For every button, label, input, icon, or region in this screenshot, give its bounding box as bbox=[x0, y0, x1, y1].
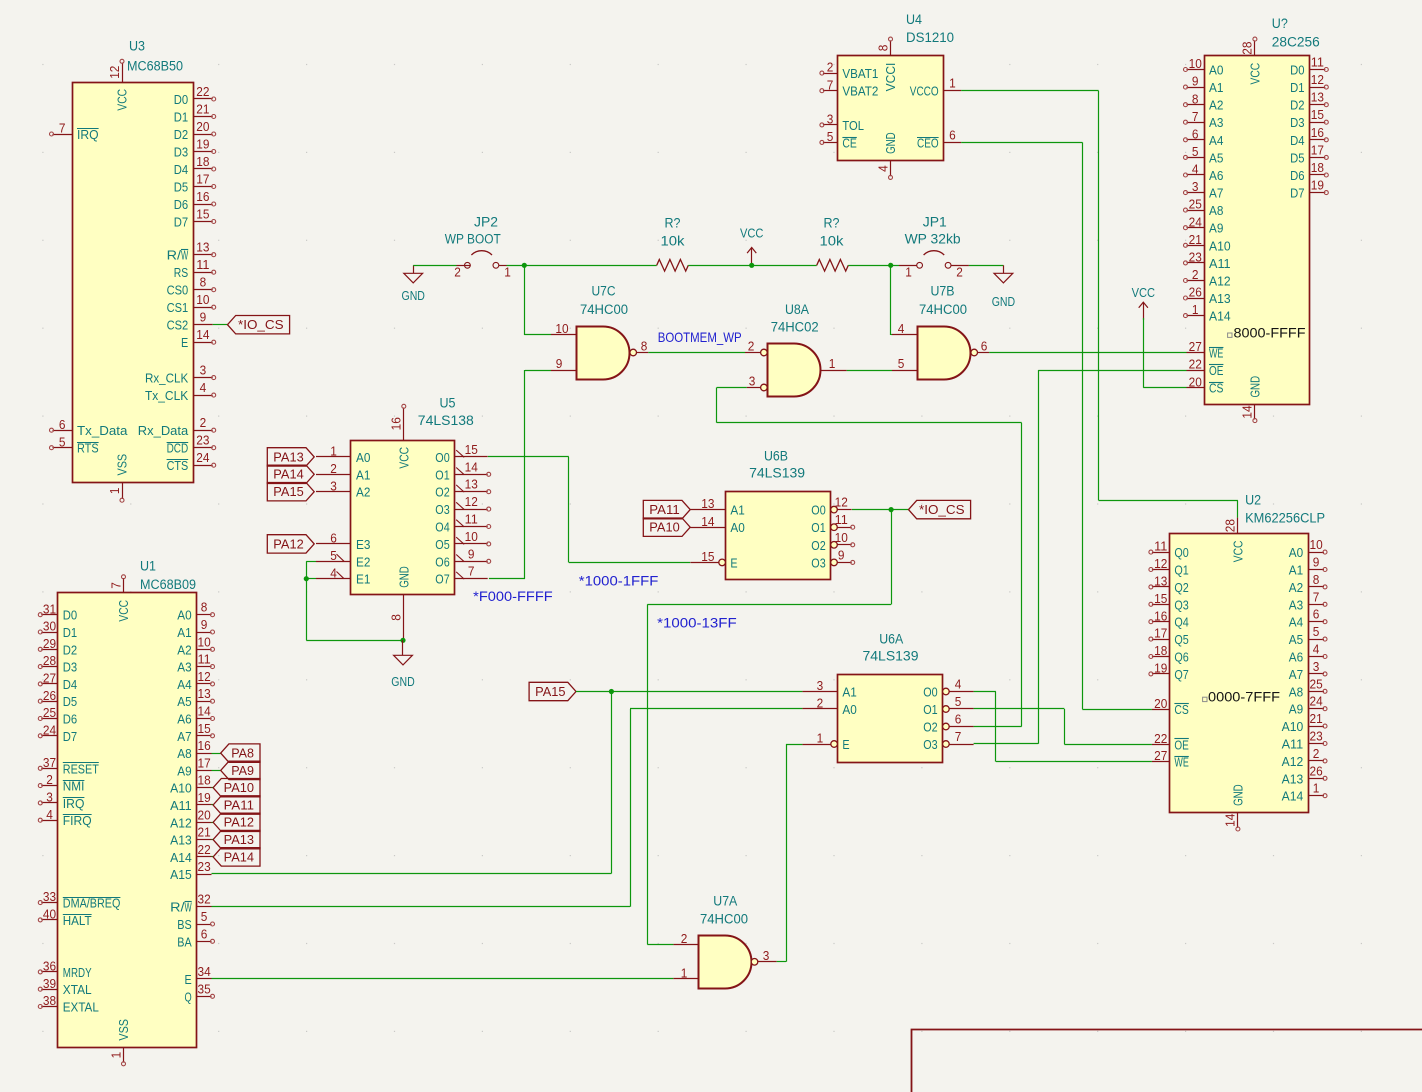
U6B pin 9 (O3) bbox=[831, 559, 838, 566]
svg-text:O0: O0 bbox=[923, 685, 937, 700]
svg-text:Tx_CLK: Tx_CLK bbox=[145, 388, 188, 403]
svg-text:1: 1 bbox=[829, 356, 836, 371]
U5 pin 5 (E2) bbox=[316, 561, 351, 563]
U7 pin 14 (GND) bbox=[1254, 405, 1256, 420]
svg-text:Q5: Q5 bbox=[1174, 632, 1188, 647]
U6A pin 1 (E) bbox=[831, 741, 838, 748]
svg-text:31: 31 bbox=[43, 601, 56, 616]
U2 pin 19 (Q7) bbox=[1152, 673, 1170, 675]
U6A pin 7 (O3) bbox=[943, 741, 950, 748]
U7 pin 8 (A2) bbox=[1187, 104, 1205, 106]
svg-text:18: 18 bbox=[198, 773, 211, 788]
U7 pin 24 (A9) bbox=[1187, 227, 1205, 229]
svg-text:27: 27 bbox=[43, 671, 56, 686]
U1 pin 4 (FIRQ) bbox=[41, 820, 58, 822]
svg-text:XTAL: XTAL bbox=[63, 982, 92, 997]
U2 pin 8 (A2) bbox=[1308, 586, 1324, 588]
svg-text:3: 3 bbox=[763, 948, 770, 963]
jumper JP1 WP 32kb bbox=[899, 215, 969, 280]
svg-text:E: E bbox=[842, 737, 849, 752]
svg-text:D7: D7 bbox=[174, 215, 188, 230]
svg-text:O1: O1 bbox=[923, 702, 937, 717]
U2 pin 14 (GND) bbox=[1237, 813, 1239, 828]
U2 pin 4 (A6) bbox=[1308, 656, 1324, 658]
U5 pin 14 (O1) bbox=[455, 474, 488, 476]
svg-text:28: 28 bbox=[43, 653, 56, 668]
svg-text:A11: A11 bbox=[1282, 737, 1304, 752]
svg-text:12: 12 bbox=[1311, 72, 1324, 87]
svg-text:13: 13 bbox=[1154, 574, 1167, 589]
svg-text:E1: E1 bbox=[356, 572, 370, 587]
svg-text:U7B: U7B bbox=[931, 284, 955, 299]
svg-text:4: 4 bbox=[200, 380, 207, 395]
svg-text:U6B: U6B bbox=[764, 449, 788, 464]
power symbol VCC (near U7 CS) bbox=[1132, 285, 1156, 320]
resistor R? 10k (left) bbox=[657, 216, 689, 272]
svg-text:34: 34 bbox=[198, 964, 211, 979]
svg-text:D7: D7 bbox=[1290, 186, 1304, 201]
svg-text:20: 20 bbox=[1154, 696, 1167, 711]
svg-text:12: 12 bbox=[835, 495, 848, 510]
ground symbol GND (right of JP1) bbox=[992, 265, 1015, 309]
svg-text:A12: A12 bbox=[170, 815, 192, 830]
svg-text:15: 15 bbox=[1311, 107, 1324, 122]
svg-text:2: 2 bbox=[454, 265, 461, 280]
svg-text:2: 2 bbox=[1192, 267, 1199, 282]
U7 pin 4 (A6) bbox=[1187, 174, 1205, 176]
svg-text:6: 6 bbox=[1313, 607, 1320, 622]
IC U1 MC68B09 CPU bbox=[38, 559, 214, 1066]
svg-text:D0: D0 bbox=[174, 92, 188, 107]
svg-text:24: 24 bbox=[1310, 694, 1323, 709]
svg-text:15: 15 bbox=[701, 549, 714, 564]
svg-text:15: 15 bbox=[198, 721, 211, 736]
svg-text:29: 29 bbox=[43, 636, 56, 651]
U4 pin 5 (CE) bbox=[823, 142, 838, 144]
U6A pin 2 (A0) bbox=[802, 708, 837, 710]
ground symbol GND (below U5) bbox=[391, 640, 414, 689]
wire JP2 pin1 to node bbox=[507, 265, 657, 267]
U1 pin 37 (RESET) bbox=[41, 768, 58, 770]
svg-text:D4: D4 bbox=[63, 677, 77, 692]
svg-text:12: 12 bbox=[465, 494, 478, 509]
svg-text:PA14: PA14 bbox=[273, 467, 303, 482]
svg-text:D4: D4 bbox=[1290, 133, 1304, 148]
wire U6A O1 to U2 OE bbox=[974, 709, 1152, 745]
U2 pin 26 (A13) bbox=[1308, 778, 1324, 780]
U3 pin 11 (RS) bbox=[193, 272, 213, 274]
svg-text:11: 11 bbox=[465, 512, 478, 527]
U3 pin 7 (IRQ) bbox=[53, 134, 73, 136]
U7 pin 19 (D7) bbox=[1310, 192, 1326, 194]
U5 pin 8 (GND) bbox=[403, 595, 405, 641]
svg-text:36: 36 bbox=[43, 959, 56, 974]
svg-text:PA12: PA12 bbox=[273, 536, 303, 551]
U1 pin 27 (D4) bbox=[41, 683, 58, 685]
svg-text:DS1210: DS1210 bbox=[906, 30, 954, 45]
svg-text:*IO_CS: *IO_CS bbox=[919, 502, 965, 517]
svg-text:PA11: PA11 bbox=[224, 797, 254, 812]
svg-text:MC68B09: MC68B09 bbox=[140, 577, 196, 592]
U6B pin 14 (A0) bbox=[690, 527, 725, 529]
U5 pin 12 (O3) bbox=[455, 509, 488, 511]
svg-text:6: 6 bbox=[59, 417, 66, 432]
U1 pin 26 (D5) bbox=[41, 701, 58, 703]
svg-text:10k: 10k bbox=[661, 234, 685, 249]
svg-text:A13: A13 bbox=[170, 833, 192, 848]
svg-text:A1: A1 bbox=[177, 625, 191, 640]
svg-text:O7: O7 bbox=[435, 572, 449, 587]
svg-text:D7: D7 bbox=[63, 729, 77, 744]
svg-text:1: 1 bbox=[108, 1052, 123, 1059]
svg-text:8: 8 bbox=[201, 600, 208, 615]
svg-text:3: 3 bbox=[817, 678, 824, 693]
svg-text:5: 5 bbox=[827, 129, 834, 144]
svg-text:25: 25 bbox=[1310, 676, 1323, 691]
svg-text:37: 37 bbox=[43, 755, 56, 770]
svg-text:VBAT2: VBAT2 bbox=[842, 84, 878, 99]
svg-text:D1: D1 bbox=[174, 110, 188, 125]
U7 pin 26 (A13) bbox=[1187, 298, 1205, 300]
U1 pin 10 (A2) bbox=[197, 649, 212, 651]
svg-text:6: 6 bbox=[1192, 126, 1199, 141]
U1 pin 39 (XTAL) bbox=[41, 989, 58, 991]
svg-text:Q2: Q2 bbox=[1174, 580, 1188, 595]
U2 pin 13 (Q2) bbox=[1152, 586, 1170, 588]
svg-text:A2: A2 bbox=[356, 485, 370, 500]
U5 pin 3 (A2) bbox=[316, 491, 351, 493]
svg-text:5: 5 bbox=[1313, 624, 1320, 639]
U1 pin 15 (A7) bbox=[197, 735, 212, 737]
svg-text:21: 21 bbox=[1189, 232, 1202, 247]
U7 pin 28 (VCC) bbox=[1254, 40, 1256, 56]
wire U1 R/W to U6A A0 bbox=[212, 709, 803, 907]
svg-text:A8: A8 bbox=[1209, 203, 1223, 218]
U1 pin 13 (A5) bbox=[197, 701, 212, 703]
U2 pin 12 (Q1) bbox=[1152, 569, 1170, 571]
U3 pin 17 (D5) bbox=[193, 186, 213, 188]
wire U6B O0 to *IO_CS and U7A pin2 bbox=[647, 510, 908, 945]
svg-text:A5: A5 bbox=[1289, 632, 1303, 647]
svg-text:17: 17 bbox=[196, 172, 209, 187]
svg-text:CTS: CTS bbox=[167, 458, 189, 473]
svg-text:O2: O2 bbox=[435, 485, 449, 500]
svg-text:VCC: VCC bbox=[1248, 63, 1263, 85]
U3 pin 3 (Rx_CLK) bbox=[193, 377, 213, 379]
svg-text:Rx_Data: Rx_Data bbox=[138, 423, 189, 438]
svg-text:A0: A0 bbox=[177, 608, 191, 623]
svg-text:14: 14 bbox=[465, 459, 478, 474]
U1 pin 23 (A15) bbox=[197, 874, 212, 876]
svg-text:16: 16 bbox=[389, 417, 404, 430]
svg-text:1: 1 bbox=[681, 965, 688, 980]
svg-text:U7A: U7A bbox=[713, 894, 737, 909]
junction at PA15 bbox=[609, 689, 614, 694]
svg-text:U4: U4 bbox=[906, 12, 923, 27]
svg-text:13: 13 bbox=[1311, 90, 1324, 105]
svg-text:PA15: PA15 bbox=[535, 684, 565, 699]
note BOOTMEM_WP bbox=[658, 330, 742, 345]
svg-text:2: 2 bbox=[46, 772, 53, 787]
svg-text:26: 26 bbox=[1189, 285, 1202, 300]
svg-text:25: 25 bbox=[1189, 197, 1202, 212]
svg-text:7: 7 bbox=[59, 121, 66, 136]
svg-text:9: 9 bbox=[1192, 74, 1199, 89]
svg-text:4: 4 bbox=[1192, 162, 1199, 177]
svg-text:A1: A1 bbox=[356, 467, 370, 482]
svg-text:14: 14 bbox=[1240, 405, 1255, 418]
U1 pin 1 (VSS) bbox=[123, 1048, 125, 1063]
svg-text:R/: R/ bbox=[167, 248, 182, 263]
svg-text:VCC: VCC bbox=[1231, 540, 1246, 562]
U5 pin 4 (E1) bbox=[316, 578, 351, 580]
global label PA10 (at U1 A10) bbox=[212, 779, 261, 797]
svg-text:GND: GND bbox=[992, 294, 1015, 309]
svg-text:D1: D1 bbox=[1290, 80, 1304, 95]
svg-text:10: 10 bbox=[465, 529, 478, 544]
NOR gate U8A 74HC02 (DeMorgan AND w/ inverted inputs) bbox=[745, 302, 847, 397]
svg-text:28C256: 28C256 bbox=[1272, 34, 1320, 49]
svg-text:4: 4 bbox=[1313, 642, 1320, 657]
svg-text:VCC: VCC bbox=[115, 89, 130, 111]
svg-text:12: 12 bbox=[198, 669, 211, 684]
U2 pin 5 (A5) bbox=[1308, 639, 1324, 641]
U3 pin 14 (E) bbox=[193, 342, 213, 344]
U3 pin 4 (Tx_CLK) bbox=[193, 395, 213, 397]
svg-text:*1000-1FFF: *1000-1FFF bbox=[579, 574, 659, 589]
U7 pin 10 (A0) bbox=[1187, 69, 1205, 71]
U3 pin 24 (CTS) bbox=[193, 465, 213, 467]
svg-text:E: E bbox=[181, 335, 188, 350]
svg-text:14: 14 bbox=[198, 704, 211, 719]
svg-text:FIRQ: FIRQ bbox=[63, 813, 92, 828]
svg-text:20: 20 bbox=[198, 807, 211, 822]
U1 pin 8 (A0) bbox=[197, 614, 212, 616]
svg-text:Q3: Q3 bbox=[1174, 597, 1188, 612]
svg-text:PA10: PA10 bbox=[649, 520, 679, 535]
svg-text:CS0: CS0 bbox=[167, 283, 189, 298]
U3 pin 10 (CS1) bbox=[193, 307, 213, 309]
U3 pin 22 (D0) bbox=[193, 98, 213, 100]
U2 pin 18 (Q6) bbox=[1152, 656, 1170, 658]
note *F000-FFFF bbox=[473, 589, 553, 604]
svg-text:A0: A0 bbox=[1289, 545, 1303, 560]
U1 pin 31 (D0) bbox=[41, 614, 58, 616]
svg-text:Q4: Q4 bbox=[1174, 615, 1188, 630]
U1 pin 19 (A11) bbox=[197, 804, 212, 806]
svg-text:D3: D3 bbox=[1290, 115, 1304, 130]
svg-text:1: 1 bbox=[107, 488, 122, 495]
U1 pin 34 (E) bbox=[197, 978, 212, 980]
svg-text:6: 6 bbox=[949, 127, 956, 142]
svg-text:9: 9 bbox=[1313, 555, 1320, 570]
svg-text:GND: GND bbox=[1248, 376, 1263, 398]
svg-text:A4: A4 bbox=[1209, 133, 1223, 148]
U4 pin 4 (GND) bbox=[890, 161, 892, 176]
U1 pin 11 (A3) bbox=[197, 666, 212, 668]
svg-text:74LS139: 74LS139 bbox=[863, 649, 919, 664]
U7 pin 3 (A7) bbox=[1187, 192, 1205, 194]
svg-text:24: 24 bbox=[1189, 214, 1202, 229]
U3 pin 12 (VCC) bbox=[122, 63, 124, 83]
note *1000-1FFF bbox=[579, 574, 659, 589]
global label PA11 (at U1 A11) bbox=[212, 796, 261, 814]
svg-text:19: 19 bbox=[196, 137, 209, 152]
svg-text:22: 22 bbox=[196, 84, 209, 99]
svg-text:D3: D3 bbox=[174, 145, 188, 160]
svg-text:A3: A3 bbox=[1289, 597, 1303, 612]
svg-text:A14: A14 bbox=[1209, 309, 1231, 324]
svg-text:D6: D6 bbox=[174, 197, 188, 212]
svg-text:4: 4 bbox=[46, 807, 53, 822]
svg-text:D1: D1 bbox=[63, 625, 77, 640]
svg-text:12: 12 bbox=[1154, 556, 1167, 571]
svg-text:2: 2 bbox=[956, 265, 963, 280]
svg-text:8: 8 bbox=[875, 45, 890, 52]
svg-text:D0: D0 bbox=[63, 608, 77, 623]
svg-text:D2: D2 bbox=[1290, 98, 1304, 113]
U1 pin 38 (EXTAL) bbox=[41, 1006, 58, 1008]
svg-text:O6: O6 bbox=[435, 554, 449, 569]
wire U1 E to U7A pin1 bbox=[212, 978, 674, 980]
U4 pin 1 (VCCO) bbox=[944, 90, 962, 92]
svg-text:0000-7FFF: 0000-7FFF bbox=[1208, 690, 1280, 705]
svg-text:PA11: PA11 bbox=[649, 502, 679, 517]
U1 pin 7 (VCC) bbox=[123, 578, 125, 593]
U5 pin 6 (E3) bbox=[316, 543, 351, 545]
U1 pin 28 (D3) bbox=[41, 666, 58, 668]
svg-text:13: 13 bbox=[465, 477, 478, 492]
U7 pin 12 (D1) bbox=[1310, 87, 1326, 89]
svg-text:18: 18 bbox=[196, 154, 209, 169]
svg-text:13: 13 bbox=[701, 496, 714, 511]
svg-text:10: 10 bbox=[1310, 537, 1323, 552]
U5 pin 10 (O5) bbox=[455, 543, 488, 545]
svg-text:*IO_CS: *IO_CS bbox=[238, 317, 284, 332]
U1 pin 32 (R/W) bbox=[197, 906, 212, 908]
U1 pin 40 (HALT) bbox=[41, 919, 58, 921]
svg-text:17: 17 bbox=[1154, 626, 1167, 641]
svg-text:22: 22 bbox=[1154, 731, 1167, 746]
U3 pin 8 (CS0) bbox=[193, 289, 213, 291]
svg-text:3: 3 bbox=[46, 790, 53, 805]
U1 pin 9 (A1) bbox=[197, 632, 212, 634]
U1 pin 18 (A10) bbox=[197, 787, 212, 789]
svg-text:6: 6 bbox=[955, 712, 962, 727]
svg-text:EXTAL: EXTAL bbox=[63, 1000, 99, 1015]
U1 pin 24 (D7) bbox=[41, 735, 58, 737]
svg-text:8: 8 bbox=[389, 614, 404, 621]
svg-text:A1: A1 bbox=[1289, 563, 1303, 578]
svg-text:2: 2 bbox=[681, 931, 688, 946]
svg-text:11: 11 bbox=[835, 512, 848, 527]
svg-text:GND: GND bbox=[396, 566, 411, 588]
wire node to U7C pin10 bbox=[524, 265, 551, 335]
U6A pin 6 (O2) bbox=[943, 723, 950, 730]
svg-text:74LS138: 74LS138 bbox=[418, 413, 474, 428]
U2 pin 3 (A7) bbox=[1308, 673, 1324, 675]
jumper JP2 WP BOOT bbox=[445, 215, 511, 280]
svg-text:U6A: U6A bbox=[879, 632, 903, 647]
svg-text:12: 12 bbox=[107, 66, 122, 79]
U2 pin 22 (OE) bbox=[1152, 744, 1170, 746]
svg-text:16: 16 bbox=[196, 189, 209, 204]
U2 pin 11 (Q0) bbox=[1152, 552, 1170, 554]
svg-text:A5: A5 bbox=[1209, 150, 1223, 165]
svg-text:4: 4 bbox=[955, 677, 962, 692]
svg-text:D3: D3 bbox=[63, 660, 77, 675]
svg-text:22: 22 bbox=[198, 842, 211, 857]
U7 pin 15 (D3) bbox=[1310, 122, 1326, 124]
svg-text:7: 7 bbox=[1192, 109, 1199, 124]
U6B pin 11 (O1) bbox=[831, 524, 838, 531]
U1 pin 25 (D6) bbox=[41, 718, 58, 720]
global label PA11 (at U6B A1) bbox=[643, 500, 690, 518]
global label PA13 (at U5) bbox=[267, 448, 314, 466]
U7 pin 27 (WE) bbox=[1187, 352, 1205, 354]
U2 pin 2 (A12) bbox=[1308, 760, 1324, 762]
svg-text:D2: D2 bbox=[63, 642, 77, 657]
U3 pin 18 (D4) bbox=[193, 168, 213, 170]
svg-text:PA9: PA9 bbox=[231, 763, 254, 778]
U3 pin 21 (D1) bbox=[193, 116, 213, 118]
svg-text:8: 8 bbox=[200, 275, 207, 290]
svg-text:A2: A2 bbox=[1289, 580, 1303, 595]
svg-text:3: 3 bbox=[749, 374, 756, 389]
svg-text:R?: R? bbox=[824, 216, 840, 231]
svg-text:CS2: CS2 bbox=[167, 318, 189, 333]
U3 pin 5 (RTS) bbox=[53, 447, 73, 449]
svg-text:3: 3 bbox=[1192, 179, 1199, 194]
NAND gate U7A 74HC00 bbox=[673, 894, 776, 989]
wire U6A O3 to U7 OE bbox=[974, 370, 1187, 744]
svg-text:35: 35 bbox=[198, 981, 211, 996]
svg-text:E2: E2 bbox=[356, 554, 370, 569]
svg-text:1: 1 bbox=[905, 265, 912, 280]
svg-text:U2: U2 bbox=[1245, 493, 1261, 508]
global label PA15 (at U6A) bbox=[529, 682, 576, 700]
U7 pin 18 (D6) bbox=[1310, 174, 1326, 176]
U7 pin 9 (A1) bbox=[1187, 87, 1205, 89]
svg-text:9: 9 bbox=[201, 617, 208, 632]
global label PA13 (at U1 A13) bbox=[212, 830, 261, 848]
ground symbol GND (left of JP2) bbox=[402, 265, 425, 303]
svg-text:OE: OE bbox=[1209, 363, 1224, 378]
svg-text:11: 11 bbox=[198, 652, 211, 667]
text 8000-FFFF with anchor square bbox=[1228, 326, 1306, 341]
svg-text:11: 11 bbox=[196, 257, 209, 272]
U3 pin 6 (Tx_Data) bbox=[53, 430, 73, 432]
svg-text:Rx_CLK: Rx_CLK bbox=[145, 371, 188, 386]
svg-text:MC68B50: MC68B50 bbox=[127, 59, 183, 74]
junction at JP2/U7C branch bbox=[522, 263, 527, 268]
IC U2 KM62256CLP SRAM bbox=[1149, 493, 1327, 832]
svg-text:1: 1 bbox=[949, 76, 956, 91]
U1 pin 16 (A8) bbox=[197, 753, 212, 755]
svg-text:15: 15 bbox=[196, 207, 209, 222]
svg-text:E3: E3 bbox=[356, 537, 370, 552]
svg-text:5: 5 bbox=[898, 356, 905, 371]
svg-text:5: 5 bbox=[955, 694, 962, 709]
svg-text:28: 28 bbox=[1240, 42, 1255, 55]
U7 pin 21 (A10) bbox=[1187, 245, 1205, 247]
svg-text:VBAT1: VBAT1 bbox=[842, 66, 878, 81]
svg-text:PA10: PA10 bbox=[224, 780, 254, 795]
svg-text:22: 22 bbox=[1189, 357, 1202, 372]
U1 pin 3 (IRQ) bbox=[41, 802, 58, 804]
svg-text:IRQ: IRQ bbox=[77, 127, 99, 142]
wire U5 E2/E1 to GND net bbox=[306, 561, 403, 640]
